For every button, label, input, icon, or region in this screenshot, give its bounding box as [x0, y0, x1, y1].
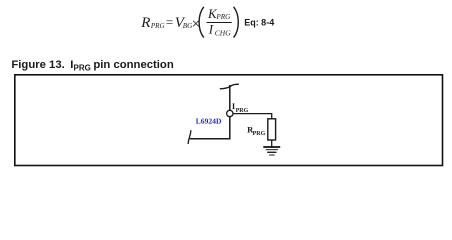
- IC U1 L6924D (partial outline): [188, 84, 239, 144]
- svg-text:Eq: 8-4: Eq: 8-4: [244, 18, 274, 28]
- wire: resistor to ground: [271, 140, 273, 147]
- wire: pin to resistor: [233, 114, 272, 119]
- svg-text:=: =: [166, 14, 173, 29]
- label L6924D: [196, 119, 221, 124]
- svg-text:I: I: [208, 21, 214, 36]
- svg-text:R: R: [140, 15, 150, 31]
- svg-text:PRG: PRG: [215, 13, 231, 21]
- equation Eq: 8-4: [140, 6, 274, 38]
- figure caption: [11, 59, 173, 73]
- svg-text:PRG: PRG: [74, 64, 91, 73]
- resistor RPRG: [247, 119, 275, 140]
- wire: IC edge vertical + bottom: [190, 85, 230, 139]
- svg-text:PRG: PRG: [253, 131, 266, 137]
- wire break mark top: [220, 84, 239, 89]
- svg-text:CHG: CHG: [215, 28, 231, 37]
- node IPRG pin terminal: [227, 101, 249, 117]
- svg-text:Figure 13.: Figure 13.: [11, 59, 64, 71]
- wire break mark left: [188, 130, 191, 144]
- ground: [263, 147, 280, 155]
- svg-text:pin connection: pin connection: [93, 59, 173, 71]
- svg-text:PRG: PRG: [150, 22, 165, 30]
- figure frame (unlabelled) drawn first: [15, 75, 443, 166]
